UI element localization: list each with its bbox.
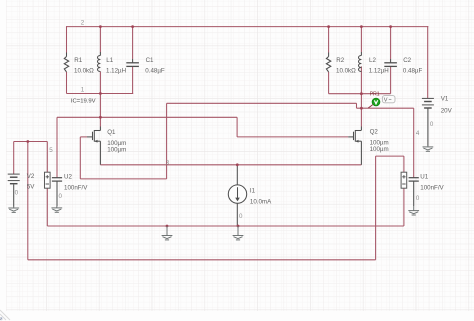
wire L1 top lead: [99, 27, 101, 52]
probe PR1: [368, 98, 380, 108]
svg-text:3: 3: [166, 159, 170, 166]
ground under I1: [233, 226, 244, 240]
svg-text:Q2: Q2: [370, 128, 379, 135]
svg-text:1: 1: [81, 87, 85, 94]
wire node 5 vertical drop: [27, 142, 29, 260]
battery V2: [8, 174, 20, 184]
transistor Q2: [354, 130, 362, 143]
wire C1 top lead: [132, 27, 134, 59]
wire U1 control horizontal: [376, 155, 404, 157]
wire ground rail: [47, 225, 404, 227]
ground on rail left: [162, 226, 173, 240]
svg-text:IC=19.9V: IC=19.9V: [71, 99, 96, 105]
wire C2 bottom lead: [390, 66, 392, 93]
svg-text:0: 0: [59, 193, 63, 200]
ground under U1 capacitor: [408, 206, 419, 215]
svg-text:U1: U1: [420, 173, 428, 180]
svg-text:I1: I1: [250, 187, 256, 194]
wire R2 top lead: [328, 27, 330, 53]
capacitor C1: [126, 63, 139, 67]
svg-text:100µm: 100µm: [370, 146, 389, 153]
svg-text:0: 0: [239, 213, 243, 220]
wire node 3 jog down: [356, 103, 358, 108]
svg-text:C2: C2: [403, 57, 411, 64]
wire V2 bottom lead: [13, 185, 15, 207]
wire node 1 tank bottom: [67, 93, 134, 95]
wire node 3 tank bottom: [329, 93, 391, 95]
wire node 3 vertical: [166, 103, 168, 179]
wire I1 bottom lead: [236, 203, 238, 226]
wire U1 control vertical drop: [375, 156, 377, 260]
resistor R2: [326, 57, 330, 72]
junction node 2 at L1: [99, 25, 102, 28]
svg-text:V: V: [384, 97, 388, 103]
wire L1 bottom lead: [99, 72, 101, 94]
svg-text:100µm: 100µm: [107, 146, 126, 153]
inductor L2: [359, 56, 362, 72]
junction node 3 at L2 and Q2 drain: [360, 92, 363, 95]
svg-text:2: 2: [81, 20, 85, 27]
svg-text:U2: U2: [64, 173, 72, 180]
svg-text:1.12µH: 1.12µH: [106, 68, 126, 75]
current source I1: [228, 185, 246, 203]
junction node 2 at L2: [360, 25, 363, 28]
ground under U2 capacitor: [51, 206, 62, 212]
svg-text:10.0mA: 10.0mA: [250, 198, 272, 205]
svg-text:10.0kΩ: 10.0kΩ: [74, 68, 94, 75]
capacitor C2: [384, 63, 397, 67]
wire U1 capacitor top lead: [413, 108, 415, 178]
wire node 3 long horizontal: [167, 102, 357, 104]
wire node 3 return horizontal: [80, 178, 166, 180]
svg-text:4: 4: [416, 130, 420, 137]
capacitor U2: [52, 178, 62, 181]
wire R1 top lead: [66, 26, 68, 52]
battery V1: [422, 98, 434, 108]
svg-text:R2: R2: [336, 57, 344, 64]
svg-text:PR1: PR1: [370, 91, 380, 97]
wire U2 capacitor bottom lead: [56, 181, 58, 206]
wire V2 top lead: [13, 142, 15, 175]
wire R1 bottom lead: [66, 72, 68, 94]
wire V1 bottom lead: [427, 108, 429, 145]
wire Q1 gate lead: [80, 136, 87, 138]
svg-text:0: 0: [430, 121, 434, 128]
wire U2 control bottom lead: [46, 188, 48, 226]
ground under V1: [423, 146, 434, 152]
junction ground rail at I1: [237, 225, 240, 228]
wire C2 top lead: [390, 27, 392, 59]
wire V1 top lead from rail: [427, 26, 429, 98]
wire L2 bottom lead: [360, 66, 362, 93]
wire U1 control top lead: [403, 156, 405, 172]
wire L2 top lead: [360, 27, 362, 52]
svg-text:L1: L1: [106, 57, 113, 64]
wire C1 bottom lead: [132, 66, 134, 93]
wire node 1 horizontal to Q2 gate step: [57, 116, 237, 118]
wire node 2 top rail: [67, 26, 429, 28]
svg-text:1.12µH: 1.12µH: [369, 68, 389, 75]
junction node 1 at L1 and Q1 drain: [99, 92, 102, 95]
capacitor U1: [409, 178, 419, 181]
transistor Q1: [93, 130, 101, 143]
svg-text:Q1: Q1: [107, 129, 116, 136]
wire Q2 drain vertical: [360, 94, 362, 127]
junction node 2 at C1: [131, 25, 134, 28]
svg-text:V1: V1: [441, 95, 449, 102]
wire U1 control bottom lead: [403, 188, 405, 226]
svg-text:100nF/V: 100nF/V: [64, 184, 88, 191]
decorative corner mark: [0, 318, 2, 321]
svg-text:5V: 5V: [27, 184, 35, 191]
junction source rail at I1: [236, 163, 239, 166]
svg-text:10.0kΩ: 10.0kΩ: [336, 68, 356, 75]
svg-text:20V: 20V: [441, 107, 453, 114]
svg-text:V2: V2: [27, 173, 35, 180]
junction node 2 at R2: [327, 25, 330, 28]
junction node 3 at Q2 drain: [360, 107, 363, 110]
op-amp U2 control port box: [45, 172, 51, 188]
junction node 2 at C2: [389, 25, 392, 28]
svg-text:0: 0: [15, 189, 19, 196]
wire step down to Q2 gate: [236, 117, 238, 137]
svg-text:100nF/V: 100nF/V: [420, 184, 444, 191]
wire R2 bottom lead: [328, 72, 330, 94]
svg-text:0: 0: [416, 195, 420, 202]
wire Q2 gate feed: [237, 136, 348, 138]
inductor L1: [98, 56, 101, 72]
wire Q1 source vertical: [99, 141, 101, 165]
wire node 5 top: [14, 141, 48, 143]
wire Q2 source vertical: [360, 141, 362, 165]
svg-text:R1: R1: [74, 57, 82, 64]
resistor R1: [64, 57, 68, 72]
svg-text:L2: L2: [369, 57, 376, 64]
svg-text:C1: C1: [146, 57, 154, 64]
wire common source rail: [100, 164, 361, 166]
svg-text:5: 5: [49, 147, 53, 154]
junction node 1 at Q1 drain: [99, 116, 102, 119]
decorative corner grip: [0, 310, 10, 320]
wire I1 top lead: [236, 165, 238, 185]
ground under V2: [8, 206, 19, 212]
junction node 5 at V2: [26, 140, 29, 143]
junction ground rail left: [166, 225, 169, 228]
op-amp U1 control port box: [401, 172, 407, 188]
wire Q1 drain vertical: [99, 94, 101, 127]
probe PR1 value bubble: [382, 96, 395, 104]
svg-text:0.48µF: 0.48µF: [403, 68, 423, 75]
wire U2 control top lead: [46, 142, 48, 173]
wire node 3 to node 4 horizontal: [357, 107, 414, 109]
svg-text:0.48µF: 0.48µF: [145, 68, 165, 75]
wire node 5 bottom rail: [28, 259, 376, 261]
wire U2 capacitor top lead: [56, 117, 58, 177]
wire U1 capacitor bottom lead: [413, 181, 415, 206]
wire Q1 gate vertical: [79, 137, 81, 179]
